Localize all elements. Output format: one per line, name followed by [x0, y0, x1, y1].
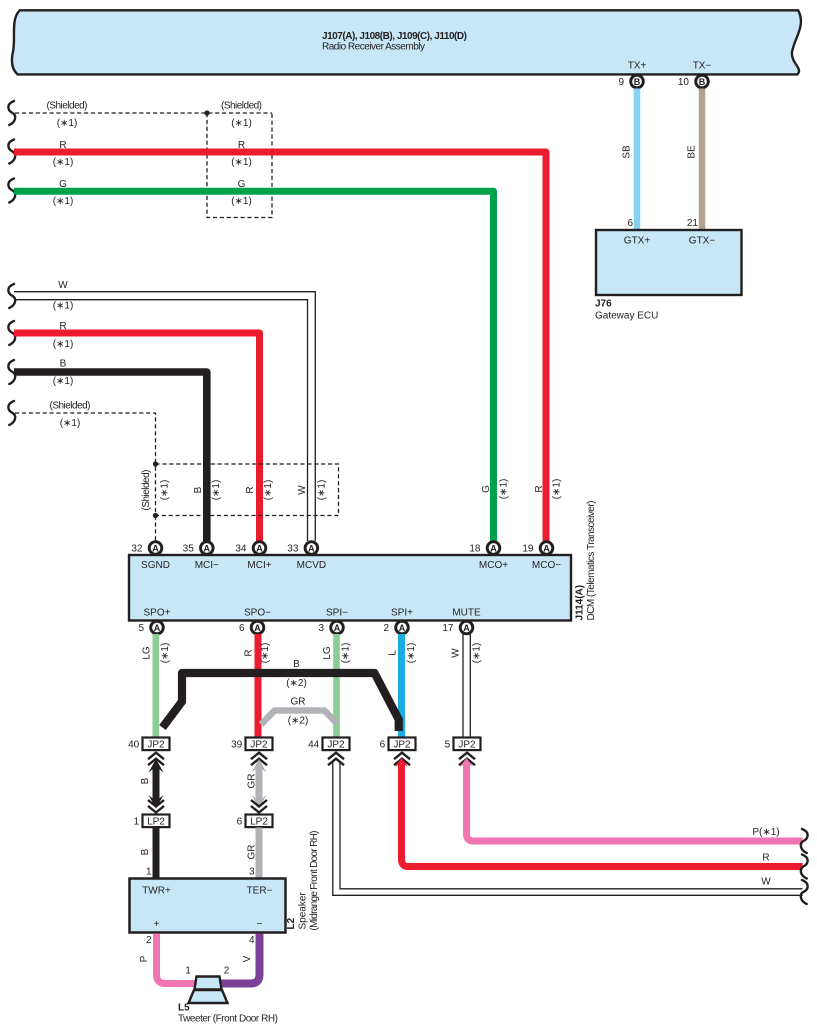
Gateway ECU J76 box: [596, 230, 742, 295]
svg-text:(∗1): (∗1): [260, 643, 271, 664]
svg-text:JP2: JP2: [393, 740, 411, 751]
svg-text:19: 19: [522, 544, 534, 555]
svg-text:L5: L5: [178, 1003, 190, 1014]
wire LG from pin 5 to 40 JP2: [153, 634, 160, 737]
svg-text:6: 6: [237, 817, 243, 828]
wire B between 40 JP2 and 1 LP2 with arrows: [149, 759, 164, 773]
wire LG from pin 3 to 44 JP2: [333, 634, 340, 737]
svg-text:R: R: [762, 853, 769, 864]
wire R from pin 6 to 39 JP2: [255, 634, 262, 737]
svg-text:(∗1): (∗1): [263, 480, 274, 501]
wire W double-line from 44 JP2 down and right to edge: [333, 762, 803, 895]
svg-text:(∗1): (∗1): [53, 339, 74, 350]
speaker L2 box: [130, 879, 286, 933]
shield 2 drop to pin 32: [155, 516, 157, 542]
svg-text:5: 5: [138, 623, 144, 634]
svg-text:GR: GR: [247, 774, 258, 789]
svg-text:W: W: [58, 280, 68, 291]
svg-text:(∗1): (∗1): [53, 196, 74, 207]
shield box 2 (dashed): [156, 464, 339, 516]
wire B (to MCI-): [8, 360, 15, 384]
svg-text:(∗1): (∗1): [341, 643, 352, 664]
svg-text:A: A: [334, 623, 341, 633]
svg-text:1: 1: [146, 867, 152, 878]
svg-text:+: +: [154, 919, 160, 930]
svg-text:R: R: [244, 649, 255, 656]
svg-text:LP2: LP2: [147, 817, 165, 828]
svg-text:B: B: [634, 77, 641, 87]
svg-text:(∗1): (∗1): [552, 479, 563, 500]
svg-text:B: B: [140, 848, 151, 855]
svg-text:(∗1): (∗1): [231, 196, 252, 207]
svg-text:W: W: [297, 485, 308, 495]
wire R from 6 JP2 down and right to edge: [395, 758, 408, 767]
svg-text:40: 40: [128, 740, 140, 751]
svg-text:(∗1): (∗1): [472, 643, 483, 664]
svg-text:(∗2): (∗2): [286, 678, 307, 689]
svg-text:35: 35: [183, 544, 195, 555]
svg-text:34: 34: [235, 544, 247, 555]
svg-text:B: B: [60, 359, 67, 370]
svg-text:32: 32: [131, 544, 143, 555]
shield box 1 (dashed): [207, 113, 272, 218]
svg-text:(∗1): (∗1): [53, 376, 74, 387]
svg-text:BE: BE: [687, 145, 698, 159]
svg-text:SB: SB: [622, 145, 633, 159]
svg-text:Radio Receiver Assembly: Radio Receiver Assembly: [322, 41, 425, 52]
svg-text:4: 4: [249, 935, 255, 946]
svg-text:1: 1: [134, 817, 140, 828]
svg-text:Tweeter (Front Door RH): Tweeter (Front Door RH): [178, 1014, 278, 1025]
junction dot shield 2 top: [153, 461, 158, 466]
svg-text:5: 5: [445, 740, 451, 751]
svg-text:SPO+: SPO+: [144, 608, 171, 619]
wire B from 1 LP2 to speaker pin 1: [153, 828, 160, 879]
svg-text:GR: GR: [247, 845, 258, 860]
svg-text:A: A: [154, 623, 161, 633]
svg-text:B: B: [140, 777, 151, 784]
Radio Receiver Assembly banner J107(A), J108(B), J109(C), J110(D): [12, 10, 801, 74]
svg-text:G: G: [481, 485, 492, 493]
svg-text:(∗1): (∗1): [160, 480, 171, 501]
wire GR (*2) jog from 39 JP2 over to 44 JP2: [261, 711, 337, 725]
svg-text:R: R: [59, 140, 66, 151]
svg-text:6: 6: [380, 740, 386, 751]
svg-text:MCI+: MCI+: [247, 560, 271, 571]
svg-text:(∗1): (∗1): [499, 479, 510, 500]
svg-text:(∗1): (∗1): [231, 118, 252, 129]
wire L from pin 2 to 6 JP2: [398, 634, 405, 737]
svg-text:LG: LG: [142, 646, 153, 660]
svg-text:J114(A): J114(A): [575, 585, 586, 621]
svg-text:SPO−: SPO−: [244, 608, 271, 619]
svg-text:TWR+: TWR+: [142, 886, 171, 897]
svg-text:(∗1): (∗1): [60, 418, 81, 429]
svg-text:MCO−: MCO−: [532, 560, 561, 571]
junction dot shield 1: [204, 110, 209, 115]
tweeter L5 symbol: [195, 977, 222, 990]
svg-text:P(∗1): P(∗1): [752, 827, 779, 838]
svg-text:6: 6: [239, 623, 245, 634]
wire GR from 6 LP2 to speaker pin 3: [256, 828, 263, 879]
svg-text:B: B: [193, 486, 204, 493]
svg-text:R: R: [59, 321, 66, 332]
svg-text:SPI+: SPI+: [391, 608, 413, 619]
svg-text:3: 3: [318, 623, 324, 634]
svg-text:(∗1): (∗1): [160, 643, 171, 664]
svg-text:G: G: [59, 179, 67, 190]
wire W double-line (to MCVD): [8, 284, 15, 308]
svg-text:A: A: [399, 623, 406, 633]
svg-text:LP2: LP2: [250, 817, 268, 828]
svg-text:10: 10: [678, 77, 690, 88]
svg-text:17: 17: [442, 623, 454, 634]
svg-text:18: 18: [469, 544, 481, 555]
svg-text:(Shielded): (Shielded): [221, 101, 262, 112]
DCM J114(A) box: [129, 555, 571, 621]
svg-text:MCO+: MCO+: [479, 560, 508, 571]
svg-text:(∗1): (∗1): [211, 480, 222, 501]
svg-text:J76: J76: [595, 299, 612, 310]
svg-text:TX+: TX+: [628, 61, 647, 72]
svg-text:44: 44: [308, 740, 320, 751]
svg-text:B: B: [293, 659, 300, 670]
svg-text:JP2: JP2: [458, 740, 476, 751]
svg-text:(∗2): (∗2): [288, 716, 309, 727]
svg-text:A: A: [256, 543, 263, 553]
svg-text:(Midrange Front Door RH): (Midrange Front Door RH): [309, 831, 320, 931]
svg-text:2: 2: [224, 966, 230, 977]
svg-text:(∗1): (∗1): [231, 157, 252, 168]
svg-text:Speaker: Speaker: [298, 892, 309, 930]
svg-text:B: B: [699, 77, 706, 87]
svg-text:JP2: JP2: [250, 740, 268, 751]
svg-text:9: 9: [618, 77, 624, 88]
svg-text:39: 39: [231, 740, 243, 751]
svg-text:2: 2: [383, 623, 389, 634]
svg-text:W: W: [761, 877, 771, 888]
svg-text:JP2: JP2: [327, 740, 345, 751]
svg-text:A: A: [543, 543, 550, 553]
svg-text:1: 1: [185, 966, 191, 977]
svg-text:MCI−: MCI−: [195, 560, 219, 571]
svg-text:6: 6: [627, 218, 633, 229]
svg-text:Gateway ECU: Gateway ECU: [595, 311, 658, 322]
svg-text:R: R: [534, 485, 545, 492]
wire shielded 2 (dashed, to SGND): [8, 401, 15, 425]
wire BE (TX- to GTX-): [699, 89, 706, 231]
svg-text:(∗1): (∗1): [317, 480, 328, 501]
svg-text:GR: GR: [291, 697, 306, 708]
wire W double-line from pin 17 to 5 JP2: [462, 634, 464, 737]
svg-text:(Shielded): (Shielded): [141, 470, 152, 511]
wire R (to MCI+): [8, 321, 15, 345]
svg-text:GTX+: GTX+: [624, 236, 651, 247]
svg-text:TX−: TX−: [693, 61, 712, 72]
svg-text:(Shielded): (Shielded): [50, 401, 91, 412]
svg-text:TER−: TER−: [247, 886, 273, 897]
svg-text:(∗1): (∗1): [53, 301, 74, 312]
junction dot shield 2 bottom: [153, 513, 158, 518]
wire SB (TX+ to GTX+): [634, 89, 641, 231]
svg-text:−: −: [257, 919, 263, 930]
svg-text:A: A: [254, 623, 261, 633]
wire R (to MCO-): [8, 140, 15, 164]
svg-text:JP2: JP2: [147, 740, 165, 751]
svg-text:21: 21: [687, 218, 699, 229]
svg-text:3: 3: [249, 867, 255, 878]
svg-text:(∗1): (∗1): [53, 157, 74, 168]
svg-text:SPI−: SPI−: [326, 608, 348, 619]
wire B (*2) jog from 40 JP2 over to 6 JP2: [163, 673, 399, 731]
svg-text:SGND: SGND: [141, 560, 170, 571]
svg-text:33: 33: [287, 544, 299, 555]
svg-text:(∗1): (∗1): [406, 643, 417, 664]
wire shielded 1 (dashed): [8, 101, 15, 125]
wire GR between 39 JP2 and 6 LP2 with arrows: [252, 759, 267, 773]
svg-text:W: W: [451, 648, 462, 658]
wire G (to MCO+): [8, 179, 15, 203]
svg-text:P: P: [139, 955, 150, 962]
svg-text:A: A: [152, 543, 159, 553]
svg-text:DCM (Telematics Transceiver): DCM (Telematics Transceiver): [586, 501, 597, 621]
svg-text:A: A: [463, 623, 470, 633]
svg-text:MUTE: MUTE: [452, 608, 481, 619]
svg-text:A: A: [308, 543, 315, 553]
svg-text:(Shielded): (Shielded): [47, 101, 88, 112]
wire P (*1) from 5 JP2 down and right to edge: [460, 758, 473, 767]
svg-text:2: 2: [146, 935, 152, 946]
svg-text:L2: L2: [286, 917, 297, 929]
svg-text:A: A: [490, 543, 497, 553]
svg-text:(∗1): (∗1): [57, 118, 78, 129]
svg-text:R: R: [245, 486, 256, 493]
svg-text:LG: LG: [322, 646, 333, 660]
svg-text:A: A: [204, 543, 211, 553]
svg-text:V: V: [242, 955, 253, 962]
svg-text:MCVD: MCVD: [297, 560, 326, 571]
svg-text:L: L: [388, 650, 399, 656]
svg-text:GTX−: GTX−: [689, 236, 716, 247]
